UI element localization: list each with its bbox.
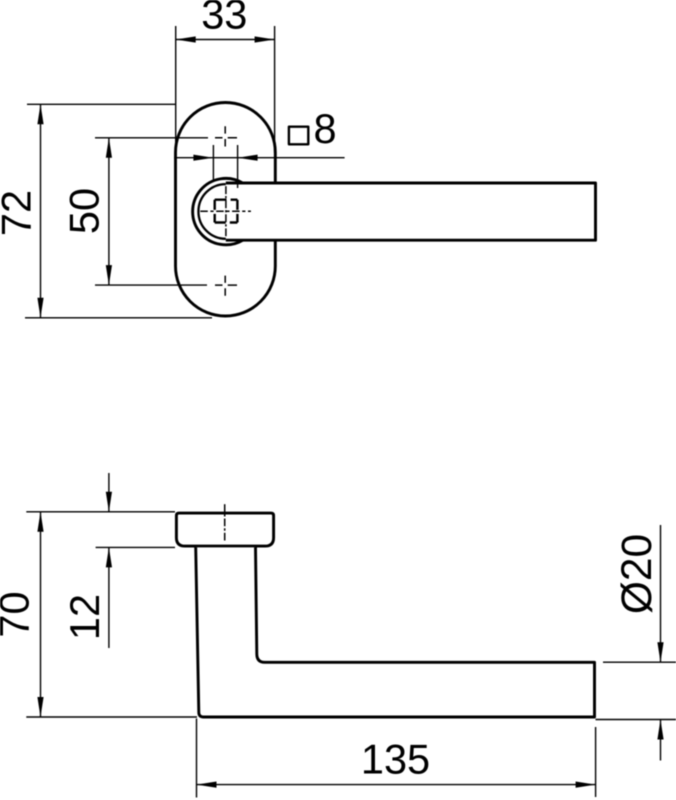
oval rosette (top view stadium outline) <box>176 103 276 317</box>
dim 33 arrow left <box>176 36 196 42</box>
svg-text:Ø20: Ø20 <box>614 534 661 614</box>
dim 33 extension lines <box>176 26 275 153</box>
spindle centerline horizontal (dash-dot) <box>200 210 251 212</box>
dim 72 extension lines <box>25 104 212 317</box>
spindle centerline vertical (dash-dot) <box>225 186 227 236</box>
dim 50 arrow top <box>106 138 112 158</box>
label square symbol of □8 <box>289 127 308 145</box>
dim 135 arrow left <box>197 782 217 788</box>
dim 8 arrow right (points left) <box>238 155 258 161</box>
dim 12 arrow upper (points down) <box>106 492 112 512</box>
svg-text:50: 50 <box>60 188 107 234</box>
dim 72 arrow top <box>37 104 43 124</box>
dim 8 arrow left (points right) <box>193 155 213 161</box>
dim Ø20 arrow upper (points down) <box>657 642 663 662</box>
dim 72 dimension line <box>40 104 42 317</box>
dim 12 dimension line lower segment <box>108 547 110 648</box>
dim 70 dimension line <box>40 512 42 717</box>
cap centerline (dash-dot) <box>224 504 226 540</box>
svg-text:135: 135 <box>361 736 430 783</box>
dim 135 arrow right <box>576 782 596 788</box>
svg-text:70: 70 <box>0 591 38 637</box>
svg-text:8: 8 <box>314 105 337 152</box>
dim 50 arrow bottom <box>106 265 112 285</box>
dim Ø20 arrow lower (points up) <box>657 720 663 740</box>
square spindle hole (dashed 8mm square) <box>215 200 238 223</box>
dim 12 extension line bottom <box>96 546 175 548</box>
dim 135 extension lines <box>197 719 596 798</box>
dim 33 arrow right <box>255 36 275 42</box>
dim 135 dimension line <box>197 784 596 786</box>
cap collar (side view top piece) <box>176 513 273 546</box>
dim 8 extension lines (square width) <box>213 145 237 188</box>
bottom screw center mark <box>215 276 237 296</box>
dim Ø20 extension lines <box>596 662 676 719</box>
neck inner arc (grip tube end) <box>198 184 225 239</box>
handle bar (top view), white fill hides rosette edge behind <box>226 183 596 240</box>
dim 12 arrow lower (points up) <box>106 547 112 567</box>
svg-text:33: 33 <box>201 0 247 38</box>
dim 70 extension lines <box>26 512 197 717</box>
dim 50 dimension line <box>108 138 110 285</box>
dim Ø20 dimension line lower segment <box>660 720 662 761</box>
dim 8 dimension line with leader to label <box>174 157 345 159</box>
handle silhouette (side view: grip + bar) <box>196 547 595 717</box>
dim 70 arrow top <box>37 512 43 532</box>
top screw center mark <box>215 126 237 146</box>
dim 72 arrow bottom <box>37 298 43 318</box>
svg-text:12: 12 <box>61 594 108 640</box>
dim 70 arrow bottom <box>37 697 43 717</box>
svg-text:72: 72 <box>0 190 40 236</box>
neck outer arc (collar ring) <box>193 178 243 244</box>
dim 33 dimension line <box>176 39 275 41</box>
dim Ø20 dimension line upper segment <box>660 525 662 662</box>
dim 50 extension lines <box>95 138 208 285</box>
dim 12 dimension line upper segment <box>108 473 110 512</box>
